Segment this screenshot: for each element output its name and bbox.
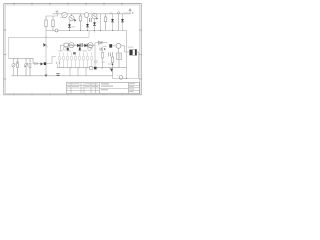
capacitor row C7 [67,53,68,69]
motor M2 on bottom wire [117,76,123,80]
diode D1 [68,21,71,31]
supply arrow +UB top right [129,9,134,14]
transistor T1 arrow [74,19,76,21]
bottom right block: resistor R6 [111,52,113,76]
label smudge right of D8 [103,46,107,47]
battery plus terminal B+ [56,11,59,15]
electrolytic cap circle E3 [88,47,91,50]
diode D10 dark [41,63,44,66]
plus mark E3 [91,47,93,49]
sheet inner border frame [5,5,140,93]
diode D9 outline [35,62,38,65]
junction dots rail2 [69,30,113,31]
capacitor row C5 [59,53,60,69]
diode D7 blob [84,44,87,47]
wire: drops bus to ground [70,68,86,76]
diode D2 [86,17,89,30]
jack J1 circle on rail2 [55,29,58,32]
transformer circle L1 on rail [84,13,89,18]
pot bottom arrowhead [45,75,48,77]
frame zone tick marks right [139,30,142,79]
capacitor row C8 [71,53,72,69]
tuner chain 1: mic circle [12,58,16,76]
transistor T2 arrow [96,18,98,20]
title block outline [67,83,140,94]
junction dots bus y68 [70,68,111,69]
meter M1 inner mark [63,14,65,16]
terminal TP1 on rail [117,12,119,31]
resistor R4 [104,14,107,31]
meter M1 circle on rail [62,12,67,17]
speaker LS1 frame [130,50,137,56]
diode D5 [121,14,124,31]
label smudge above speaker [128,47,133,48]
capacitor row C6 [63,53,64,69]
title block left verticals [71,83,96,94]
capacitor C14 dark at bus left [56,74,59,76]
wire: +V rail top [53,13,131,15]
wire: ground bus step [113,76,139,79]
label under meter [60,17,64,19]
junction dot below D8 [104,48,106,50]
title block middle divider [100,87,129,89]
diode D6 blob [77,44,80,47]
junction dot x46/y37 [46,37,47,38]
resistor R2 [52,16,54,31]
label near supply [124,13,129,14]
title block verticals major [100,83,129,94]
tuner chain 4: box [29,58,31,76]
speaker LS1 magnet dark [130,50,133,55]
transistor T1 [69,14,74,21]
title block left horizontals [67,85,100,90]
capacitor C4 blob [109,44,112,47]
wire: drop left of signal path [60,45,62,51]
label smudges caps row [59,50,88,51]
transistor T2 [92,13,97,18]
title block right horizontals [129,85,140,90]
wire: speaker return x138.5 [137,52,139,79]
resistor chain x102.5 [101,47,103,68]
page background [0,0,145,98]
dark blob E1 bar [67,48,69,51]
capacitor row C10 [79,53,80,69]
wire: long feedback y37 [9,31,90,59]
title block header smudges [68,83,99,87]
diode D3 [93,19,96,31]
wire: collector drop x95 [94,43,96,68]
pot arrow tail [46,45,48,47]
tuner block top wire y59 [9,58,45,63]
wire: ground bus y76 [12,75,113,77]
label smudge above rail2 [72,26,75,27]
dark cap blob on bus [94,67,97,70]
resistor R1 [45,16,47,31]
diode D8 outline [98,41,102,44]
wire: hook at left of bus [57,65,59,69]
tuner chain 2: cap box [16,58,18,76]
capacitor C2 bars [81,43,83,47]
wire: volume pot vertical x46 [45,31,47,77]
speaker LS1 coil bar [135,49,137,55]
wire: R1/R2 top feed [46,14,58,16]
capacitor C1 bars [90,18,92,22]
capacitor row C12 [87,53,88,69]
sheet outer border frame [4,4,141,95]
wire: signal continues raised [95,42,108,44]
wire: to transformer [112,45,116,47]
stub below rail2 x94.5 [94,31,96,33]
capacitor bars x109.5 [109,53,111,57]
frame zone tick marks left [3,30,6,79]
coupling blob at x45 [44,62,46,65]
capacitor row C11 [83,53,84,69]
capacitor row C9 [75,53,76,69]
diode D7 bar [86,44,88,48]
transistor T3 [69,43,74,48]
wire: rail2 right drop x126.5 [126,31,128,79]
wire: rail2 mid horizontal [46,30,127,32]
resistor R3 [79,14,82,31]
dark label glyph above caps row [73,52,76,54]
fuse box on bus [90,67,93,70]
transistor T4 [88,43,93,48]
output transducer box with bars [117,49,122,68]
junction dot bottom right [126,78,127,79]
title block right text smudges [129,83,135,92]
dark cap blob on bus right [110,69,113,72]
wire: small link y63.5 right [108,63,113,65]
diode D4 [111,14,114,31]
tuner chain 3: trimmer arrow + box [24,58,28,76]
tuning marks >> [56,62,60,64]
capacitor row C13 [91,53,92,69]
junction dot under R6 [112,64,114,66]
frame zone tick marks bottom [14,93,122,95]
title block middle text smudges [101,83,113,90]
label smudge near x103 [102,62,105,63]
capacitor C3 bars below [100,48,102,51]
wire: to speaker [121,46,130,52]
pot wiper arrow P1 [43,43,46,47]
wire: drop at x100.5 [100,14,102,31]
diode D6 bar [79,44,81,48]
wire: signal path y45 [61,44,96,46]
transformer L2 circle [116,43,121,48]
label smudge above D4/D5 [110,13,113,14]
electrolytic cap circle E1 [63,47,66,50]
resistor R5 horizontal [64,43,68,46]
wire: bus y68 [58,67,127,69]
frame zone tick marks top [14,3,122,6]
dark blob E2 [79,48,81,51]
wire: from pot to caps row [46,57,56,64]
connector circle on x95 [94,60,97,63]
